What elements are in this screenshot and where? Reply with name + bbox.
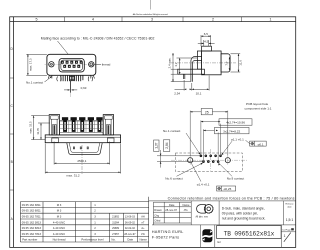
boxed dim 4x2,74=10,96 xyxy=(201,120,221,154)
nut left xyxy=(52,138,59,143)
contacts row 2 xyxy=(63,65,80,68)
svg-text:Connector retention and insert: Connector retention and insertion forces… xyxy=(168,196,295,200)
dim 25 boxed xyxy=(190,111,228,156)
pins from top (5 T posts) xyxy=(62,117,103,132)
svg-text:max. 17,3: max. 17,3 xyxy=(29,58,33,71)
boardlock strips xyxy=(54,125,56,134)
centerline xyxy=(170,62,236,64)
svg-text:M 3: M 3 xyxy=(57,215,62,219)
svg-text:28-nov-97: 28-nov-97 xyxy=(165,208,177,212)
scale cell xyxy=(283,201,285,225)
svg-text:1,5:1: 1,5:1 xyxy=(286,218,294,222)
big hole right xyxy=(225,158,230,163)
svg-text:⌀0,25: ⌀0,25 xyxy=(224,187,232,191)
revision entries xyxy=(112,216,145,236)
svg-text:M 3: M 3 xyxy=(57,209,62,213)
svg-text:max. 31,2: max. 31,2 xyxy=(66,173,80,177)
part table grid xyxy=(20,197,148,248)
svg-text:Date: Date xyxy=(169,203,175,207)
boardlock leg below foot xyxy=(182,74,184,79)
row offset boxed dims left xyxy=(157,150,204,168)
mounting foot xyxy=(178,69,205,74)
bent contact pin (elbow) xyxy=(191,56,202,81)
dim 25 +-0,1 xyxy=(54,142,110,165)
svg-text:25±0,1: 25±0,1 xyxy=(77,159,86,163)
svg-text:Performance level: Performance level xyxy=(81,237,104,241)
svg-text:2,84: 2,84 xyxy=(165,142,169,148)
svg-text:06-09-02: 06-09-02 xyxy=(125,221,136,224)
dim max 17,3 left xyxy=(26,54,47,75)
position tolerance frame small holes xyxy=(250,141,267,146)
dim 4,5 xyxy=(198,40,215,46)
svg-text:AH: AH xyxy=(141,216,145,219)
zone ticks top xyxy=(65,17,242,22)
svg-text:09 65 162 7811: 09 65 162 7811 xyxy=(22,215,41,219)
svg-text:4x2,74=10,96: 4x2,74=10,96 xyxy=(226,121,245,125)
boardlock hook left xyxy=(57,76,61,81)
svg-text:02-02-02: 02-02-02 xyxy=(125,227,136,230)
mating shroud xyxy=(221,54,230,72)
svg-text:1: 1 xyxy=(270,18,272,22)
svg-text:09 65 162 3813: 09 65 162 3813 xyxy=(22,220,42,224)
svg-text:All dim. mm: All dim. mm xyxy=(196,216,208,219)
dim 6,5 top xyxy=(201,35,211,46)
svg-text:27957: 27957 xyxy=(112,233,120,236)
svg-text:11,70: 11,70 xyxy=(36,127,40,134)
svg-text:31094: 31094 xyxy=(112,221,120,224)
boardlock hook right xyxy=(88,76,92,81)
approval mini table xyxy=(152,201,296,225)
svg-text:4: 4 xyxy=(92,18,94,22)
svg-text:No.1 contact: No.1 contact xyxy=(163,129,181,133)
zone letters xyxy=(11,47,14,221)
svg-text:F-95872 Paris: F-95872 Paris xyxy=(152,234,180,239)
left mounting hole xyxy=(49,62,54,67)
comb center block xyxy=(69,76,75,81)
svg-text:B: B xyxy=(11,160,13,164)
svg-text:2,54: 2,54 xyxy=(174,92,180,96)
svg-text:4-40 UNC: 4-40 UNC xyxy=(53,220,65,224)
svg-text:Drawn: Drawn xyxy=(154,208,162,212)
zone numbers xyxy=(36,18,272,22)
small holes row1 xyxy=(200,155,221,157)
svg-text:29689: 29689 xyxy=(112,227,120,230)
svg-text:JTo: JTo xyxy=(184,208,189,212)
bracket feet xyxy=(48,75,52,78)
svg-text:Release: Release xyxy=(285,203,294,205)
svg-text:⌀1,1 +0,1: ⌀1,1 +0,1 xyxy=(231,137,244,141)
svg-text:Iss/Page: Iss/Page xyxy=(282,230,291,232)
svg-text:thread: thread xyxy=(102,63,111,67)
svg-text:Alle Rechte vorbehalten / All: Alle Rechte vorbehalten / All rights res… xyxy=(133,13,168,16)
insulator block xyxy=(60,121,104,135)
svg-text:25: 25 xyxy=(205,110,209,114)
left dims plan view xyxy=(31,116,50,140)
logo cell xyxy=(200,225,202,248)
svg-text:No.1 contact: No.1 contact xyxy=(26,80,43,84)
top line of right block xyxy=(149,200,296,202)
nut right xyxy=(108,138,115,143)
svg-text:max. 15,5: max. 15,5 xyxy=(28,121,32,134)
svg-text:09 65 162 3811: 09 65 162 3811 xyxy=(22,203,41,207)
svg-text:09 poles, with solder pin,: 09 poles, with solder pin, xyxy=(222,212,258,216)
svg-text:Nut thread: Nut thread xyxy=(53,237,66,241)
svg-text:11,6: 11,6 xyxy=(238,60,242,66)
left dims rotated xyxy=(171,53,198,82)
svg-text:Name: Name xyxy=(183,203,190,207)
big hole label xyxy=(191,163,201,182)
big hole left xyxy=(188,158,193,163)
pin marks in trapezoid xyxy=(73,147,89,150)
dim 11,6 right xyxy=(231,54,241,72)
insulator hatch lines xyxy=(60,121,104,132)
svg-text:JTo: JTo xyxy=(141,233,146,236)
zone ticks left xyxy=(10,78,14,190)
dashed board outline xyxy=(175,153,242,171)
svg-text:No.: No. xyxy=(111,237,116,241)
svg-text:PCB layout hole: PCB layout hole xyxy=(246,102,268,106)
bottom dims 2,54 and 10,1 xyxy=(175,76,210,91)
sheet cell xyxy=(280,225,282,248)
svg-text:2,4 max.: 2,4 max. xyxy=(168,57,172,68)
svg-text:Mating face according to : MIL: Mating face according to : MIL-C-24308 /… xyxy=(41,37,155,41)
position tolerance frame big holes xyxy=(217,186,236,191)
boxed dim 3x2,74=8,22 xyxy=(203,129,218,160)
svg-text:No.6 contact: No.6 contact xyxy=(165,177,183,181)
svg-text:Date: Date xyxy=(127,237,133,241)
svg-text:TB 0965162x81x: TB 0965162x81x xyxy=(224,231,275,238)
contacts row 1 xyxy=(61,61,83,64)
centerline horizontal xyxy=(171,159,247,161)
svg-text:09 65 162 6813: 09 65 162 6813 xyxy=(22,226,42,230)
svg-text:1,37: 1,37 xyxy=(155,142,159,148)
svg-text:6,5: 6,5 xyxy=(204,32,209,36)
svg-text:⌀1,4 +0,1: ⌀1,4 +0,1 xyxy=(197,183,210,187)
svg-text:4,5: 4,5 xyxy=(204,40,209,44)
part number box xyxy=(214,225,216,248)
svg-text:7,9: 7,9 xyxy=(224,61,228,65)
svg-text:⌀0,1: ⌀0,1 xyxy=(258,142,264,146)
small holes row2 xyxy=(203,161,219,163)
top step xyxy=(202,46,212,51)
svg-text:4-40 UNC: 4-40 UNC xyxy=(53,232,65,236)
centerline vertical mid xyxy=(210,149,212,171)
svg-text:1: 1 xyxy=(284,234,286,238)
svg-text:09 65 162 6811: 09 65 162 6811 xyxy=(22,209,41,213)
svg-text:4-40 UNC: 4-40 UNC xyxy=(53,226,65,230)
svg-text:Chkd: Chkd xyxy=(154,219,161,223)
svg-text:21892: 21892 xyxy=(112,216,120,219)
right mounting hole (thread) xyxy=(89,62,94,67)
svg-text:Name: Name xyxy=(140,237,148,241)
shroud trapezoid below flange xyxy=(67,143,102,155)
D-shroud outer xyxy=(59,59,84,72)
svg-text:Part number: Part number xyxy=(22,237,37,241)
svg-text:3: 3 xyxy=(151,18,153,22)
dim 7,9 inner xyxy=(229,57,231,71)
bracket right xyxy=(103,115,113,135)
svg-text:nut and grounding board lock.: nut and grounding board lock. xyxy=(222,217,266,221)
svg-text:component side 1:1: component side 1:1 xyxy=(245,106,272,110)
svg-text:5: 5 xyxy=(36,18,38,22)
bracket left xyxy=(49,115,59,135)
svg-text:M 3: M 3 xyxy=(57,203,62,207)
main body xyxy=(202,51,222,75)
svg-text:3,2: 3,2 xyxy=(174,62,178,66)
svg-text:HARTING EURL: HARTING EURL xyxy=(152,229,184,234)
centerline through holes xyxy=(45,63,99,65)
description cell xyxy=(218,201,220,225)
dim max 31,2 xyxy=(45,144,120,174)
centerline vertical xyxy=(81,145,83,174)
svg-text:10,1: 10,1 xyxy=(196,92,202,96)
pin width dim 0,63 xyxy=(64,89,77,91)
center pin extended xyxy=(70,81,72,93)
flange bar xyxy=(45,135,120,143)
svg-text:13-06-03: 13-06-03 xyxy=(125,216,136,219)
svg-text:D-Sub, male, standard angle,: D-Sub, male, standard angle, xyxy=(222,207,265,211)
svg-text:3x2,74=8,22: 3x2,74=8,22 xyxy=(223,129,240,133)
connector shell outline xyxy=(47,54,96,75)
svg-text:Chg: Chg xyxy=(154,213,159,217)
svg-text:eT: eT xyxy=(142,221,145,224)
icon cell: D-sub symbol xyxy=(197,205,213,214)
flange plate xyxy=(197,51,201,69)
solder pin comb below xyxy=(61,75,83,81)
thread label xyxy=(94,63,101,65)
D-shroud inner xyxy=(61,60,83,70)
contact centers (white dots) xyxy=(62,62,82,67)
svg-text:2: 2 xyxy=(212,18,214,22)
svg-text:No.9 contact: No.9 contact xyxy=(227,177,245,181)
svg-text:A+: A+ xyxy=(141,227,145,230)
svg-text:0,63: 0,63 xyxy=(81,86,87,90)
svg-text:28-nov-97: 28-nov-97 xyxy=(124,233,136,236)
company cell xyxy=(152,229,184,240)
leader from note to shroud xyxy=(58,41,69,54)
part table text xyxy=(22,203,42,236)
svg-text:09 65 162 7813: 09 65 162 7813 xyxy=(22,232,42,236)
